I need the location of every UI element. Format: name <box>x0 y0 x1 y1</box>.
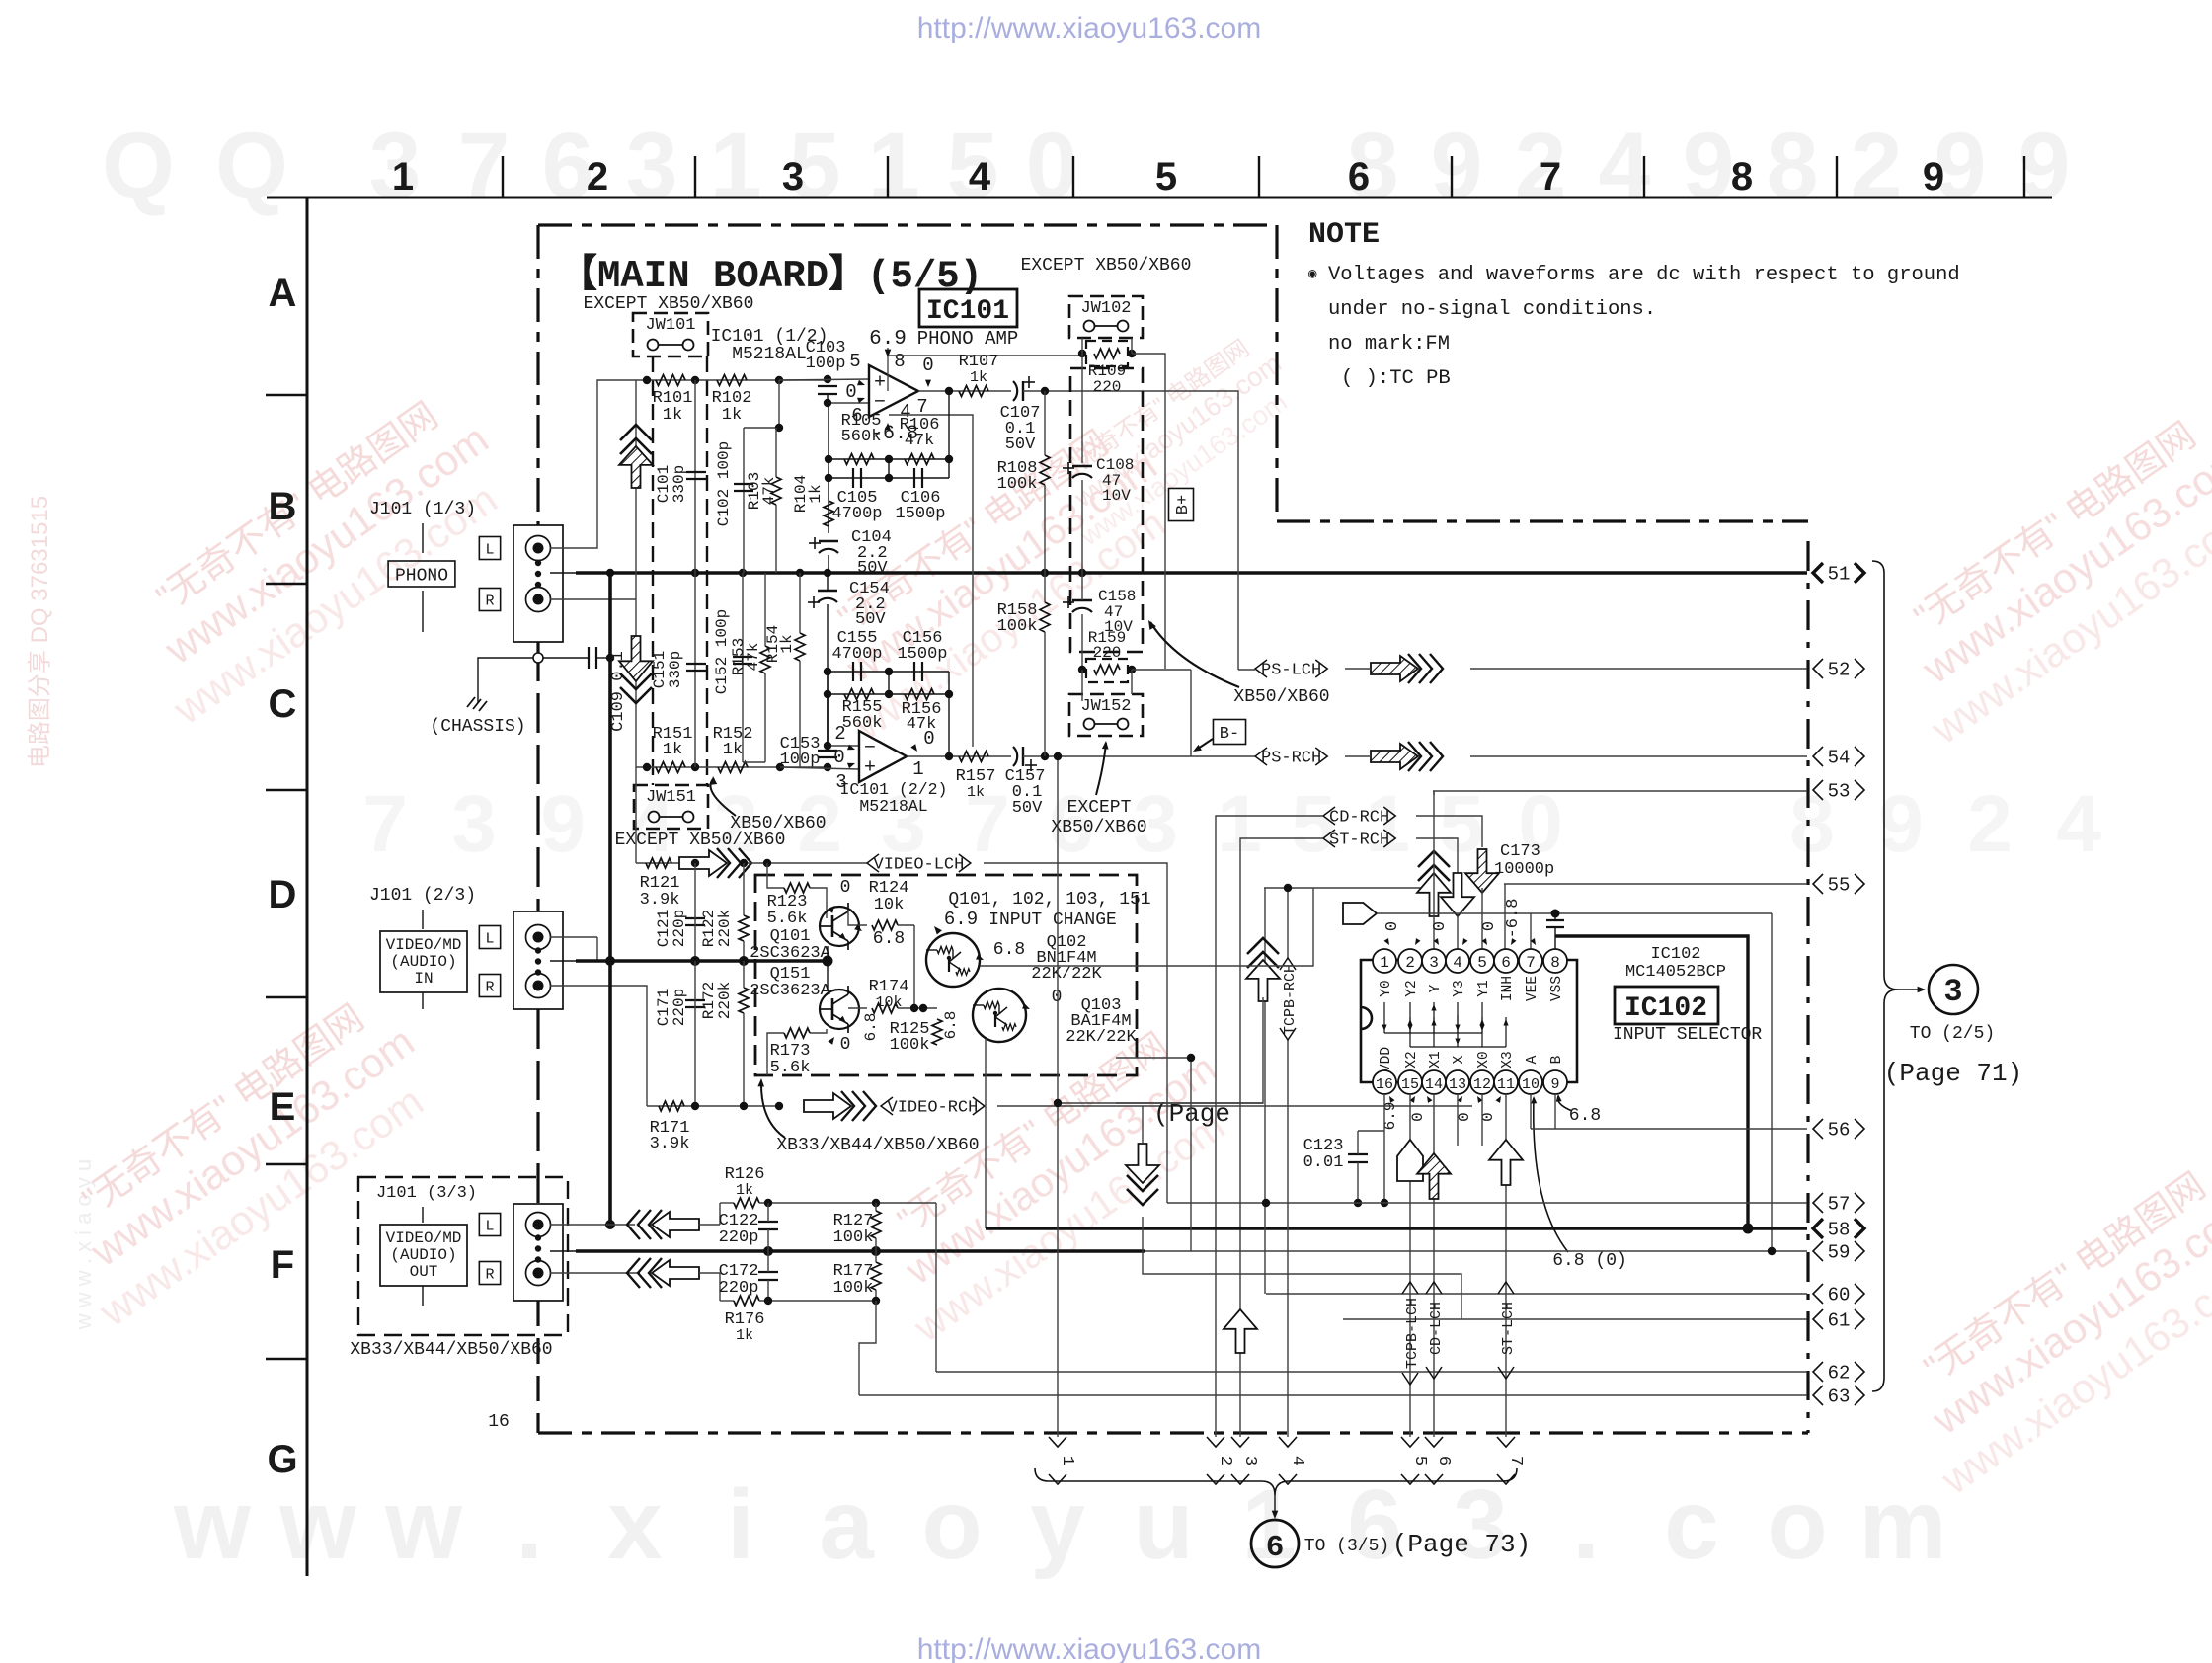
svg-text:2SC3623A: 2SC3623A <box>750 982 830 1000</box>
svg-text:47k: 47k <box>905 432 935 450</box>
svg-text:i: i <box>727 1469 754 1580</box>
wire R173 row <box>810 1029 827 1033</box>
wire minus input 2 <box>828 745 859 747</box>
wire to C107 node <box>1023 391 1238 670</box>
wire R124-R174 link <box>913 925 915 1008</box>
svg-text:X: X <box>1452 1055 1467 1064</box>
hatched arrow down left column <box>619 636 653 681</box>
svg-text:4: 4 <box>969 155 991 198</box>
svg-text:C152 100p: C152 100p <box>713 609 731 694</box>
svg-text:电路图分享 DQ 37631515: 电路图分享 DQ 37631515 <box>27 496 53 768</box>
wire pin5 trunk <box>1481 888 1483 949</box>
svg-text:◉: ◉ <box>1308 267 1317 282</box>
resistor R122v <box>739 915 749 941</box>
wire 63 line <box>859 1394 1807 1396</box>
wire R172 col <box>743 961 745 988</box>
wire R158 col <box>1044 573 1046 602</box>
svg-text:10000p: 10000p <box>1494 860 1554 879</box>
wire input row 777 <box>636 766 828 768</box>
wire R123 to Q101 <box>810 888 827 918</box>
wire input row 385 <box>636 379 828 381</box>
svg-text:14: 14 <box>1425 1076 1443 1093</box>
capacitor C153 <box>818 750 837 752</box>
svg-text:100p: 100p <box>780 751 821 769</box>
svg-text:60: 60 <box>1828 1285 1851 1307</box>
svg-text:100k: 100k <box>997 617 1038 636</box>
thick wire from pin8 L <box>1555 936 1748 1228</box>
hatched arrow down C173 <box>1465 849 1499 893</box>
svg-text:330p: 330p <box>667 651 684 688</box>
wire 900 col <box>888 459 890 478</box>
resistor R171 <box>659 1101 684 1111</box>
svg-text:220p: 220p <box>719 1228 759 1247</box>
wire VIDEO-LCH mid <box>741 862 867 864</box>
svg-text:6: 6 <box>1501 954 1511 972</box>
connector arrow 61 <box>1813 1309 1823 1329</box>
jumper JW101 dashed box <box>633 313 708 356</box>
wire C158 col <box>1081 573 1083 600</box>
wire R122 col <box>743 863 745 915</box>
capacitor C155 <box>852 662 854 681</box>
wire PHONO R down <box>550 598 636 600</box>
svg-text:1k: 1k <box>778 634 796 653</box>
circled 6 off-page <box>1251 1520 1299 1567</box>
svg-text:5.6k: 5.6k <box>767 910 808 928</box>
svg-text:8: 8 <box>1550 954 1560 972</box>
svg-text:6.8 (0): 6.8 (0) <box>1552 1251 1627 1271</box>
svg-text:B+: B+ <box>1174 495 1193 515</box>
transistor Q101 <box>820 907 859 946</box>
jumper JW152 dashed box <box>1069 694 1143 736</box>
svg-text:330p: 330p <box>671 465 688 503</box>
svg-text:4: 4 <box>2056 779 2101 869</box>
svg-text:0.01: 0.01 <box>1303 1153 1344 1172</box>
jumper JW151 dashed box <box>634 785 708 829</box>
resistor R102 <box>717 375 747 386</box>
circled 3 off-page <box>1929 965 1978 1014</box>
wire R out <box>550 1272 640 1274</box>
svg-text:( ):TC PB: ( ):TC PB <box>1341 367 1451 390</box>
svg-text:c: c <box>1664 1469 1719 1580</box>
IC101 big box <box>919 289 1017 327</box>
wire 62 line <box>936 1371 1807 1373</box>
wire VIDEO-LCH row <box>636 862 679 864</box>
wire trunk 1279 arrows <box>1246 960 1280 1001</box>
svg-text:L: L <box>485 930 494 947</box>
svg-text:2: 2 <box>1967 779 2013 869</box>
svg-text:8: 8 <box>1767 114 1819 218</box>
ground chassis symbol <box>467 697 475 707</box>
wire to PS-RCH <box>1023 755 1255 757</box>
svg-text:VIDEO-LCH: VIDEO-LCH <box>874 856 965 875</box>
arrow XB50/XB60 curve <box>1150 622 1239 687</box>
dashed column right <box>706 356 708 785</box>
svg-text:C102 100p: C102 100p <box>715 441 733 526</box>
wire row 772 link <box>743 761 765 763</box>
wire 838 col 2 <box>827 672 829 746</box>
connector arrow 54 <box>1813 747 1823 766</box>
svg-text:1: 1 <box>392 155 414 198</box>
connector arrow 62 <box>1813 1362 1823 1382</box>
svg-text:7: 7 <box>1540 155 1561 198</box>
wire R127 col <box>875 1203 877 1211</box>
wire thick vertical from PHONO line down <box>608 573 612 961</box>
svg-text:7: 7 <box>1526 954 1536 972</box>
svg-text:【MAIN BOARD】(5/5): 【MAIN BOARD】(5/5) <box>559 254 983 298</box>
svg-text:R: R <box>485 593 494 609</box>
svg-text:CD-LCH: CD-LCH <box>1428 1302 1445 1355</box>
wire CD-RCH left <box>1216 816 1323 1437</box>
svg-text:6.8: 6.8 <box>1569 1106 1601 1126</box>
svg-text:5.6k: 5.6k <box>770 1059 811 1077</box>
open arrow VIDEO-LCH <box>679 850 727 876</box>
svg-text:L: L <box>485 541 494 558</box>
arrow B- pointer <box>1195 739 1213 751</box>
svg-text:x: x <box>607 1469 663 1580</box>
wire C171 col <box>694 961 696 1106</box>
wire 55 line left <box>1264 887 1434 889</box>
svg-text:3: 3 <box>451 779 497 869</box>
PHONO boxed label <box>388 561 455 587</box>
svg-text:EXCEPT XB50/XB60: EXCEPT XB50/XB60 <box>1021 256 1192 276</box>
transistor Q102 dtr <box>926 933 980 987</box>
wire feedback row 484 <box>829 477 949 479</box>
capacitor C152 <box>733 656 752 658</box>
capacitor C109 <box>588 647 590 669</box>
svg-text:6.8: 6.8 <box>862 1013 880 1042</box>
svg-text:+: + <box>864 756 876 779</box>
resistor R127v <box>871 1211 881 1238</box>
resistor R156 <box>905 689 934 700</box>
svg-text:50V: 50V <box>1005 436 1036 454</box>
svg-text:ST-LCH: ST-LCH <box>1500 1302 1517 1355</box>
svg-text:4700p: 4700p <box>831 645 882 664</box>
svg-text:220p: 220p <box>671 989 688 1026</box>
svg-text:47k: 47k <box>745 643 762 672</box>
svg-text:1: 1 <box>868 114 920 218</box>
svg-text:53: 53 <box>1828 781 1851 803</box>
svg-text:Q: Q <box>102 114 175 218</box>
svg-text:100k: 100k <box>890 1036 930 1055</box>
net CD-RCH <box>1323 807 1335 825</box>
svg-text:0: 0 <box>1480 921 1499 931</box>
svg-text:INH: INH <box>1500 976 1516 1001</box>
connector down 5 <box>1401 1437 1419 1447</box>
net ST-LCH <box>1498 1282 1514 1294</box>
svg-text:6: 6 <box>1347 1469 1402 1580</box>
svg-text:5: 5 <box>849 351 860 372</box>
wire 55 line right <box>1504 883 1807 885</box>
svg-text:PS-RCH: PS-RCH <box>1261 750 1321 768</box>
svg-text:Voltages and waveforms are dc: Voltages and waveforms are dc with respe… <box>1328 264 1960 286</box>
input change dashed box <box>755 875 1137 1075</box>
svg-text:PHONO AMP: PHONO AMP <box>917 328 1019 350</box>
svg-text:50V: 50V <box>855 610 886 629</box>
svg-text:220: 220 <box>1093 378 1122 396</box>
VIDEO/MD AUDIO IN box <box>380 931 467 992</box>
wire minus node down <box>828 403 829 533</box>
svg-text:−: − <box>874 391 886 414</box>
svg-text:9: 9 <box>1431 114 1483 218</box>
wire 1117 link <box>1058 1102 1263 1104</box>
svg-text:3: 3 <box>1453 1469 1508 1580</box>
resistor R152 <box>718 762 748 773</box>
label R pin 2 <box>479 975 500 997</box>
resistor R106 <box>905 454 934 465</box>
svg-text:100p: 100p <box>806 355 846 373</box>
wire feedback row 703 <box>828 693 949 695</box>
wire feedback row 465 <box>829 458 949 460</box>
connector down 6 <box>1425 1437 1443 1447</box>
wire C151 col <box>694 573 696 767</box>
resistor R108v <box>1040 455 1050 485</box>
wire C152 col <box>742 573 744 762</box>
connector arrow 51 <box>1813 563 1823 583</box>
svg-text:J101 (1/3): J101 (1/3) <box>369 500 476 519</box>
svg-text:7: 7 <box>362 779 408 869</box>
resistor R172v <box>739 988 749 1013</box>
wire trunk 1282 <box>1264 888 1266 1294</box>
svg-text:57: 57 <box>1828 1194 1851 1216</box>
resistor R159 dashed box <box>1086 659 1128 682</box>
svg-text:3: 3 <box>1240 1456 1259 1465</box>
svg-text:C: C <box>269 682 297 726</box>
wire R154 col <box>799 573 801 633</box>
svg-text:1k: 1k <box>723 741 743 759</box>
svg-text:A: A <box>269 272 297 315</box>
svg-text:3: 3 <box>1429 954 1439 972</box>
open arrow up pin11 <box>1489 1140 1523 1185</box>
svg-text:0: 0 <box>1383 921 1402 931</box>
label L pin 3 <box>479 1214 500 1236</box>
svg-text:C173: C173 <box>1500 842 1540 861</box>
transistor Q103 dtr <box>973 989 1026 1042</box>
svg-text:JW152: JW152 <box>1080 697 1131 716</box>
J101 3/3 dashed box <box>358 1177 568 1335</box>
svg-text:0: 0 <box>840 878 851 898</box>
svg-text:u: u <box>1133 1469 1193 1580</box>
svg-text:9: 9 <box>1923 155 1944 198</box>
connector down 1 <box>1049 1437 1066 1447</box>
svg-text:IC101: IC101 <box>926 296 1009 327</box>
wire C108 to thick <box>1081 480 1083 573</box>
svg-text:B: B <box>1549 1055 1565 1064</box>
dashed column left <box>652 356 654 785</box>
svg-text:D: D <box>269 873 297 916</box>
label L pin <box>479 537 500 560</box>
wire Q151 collector to R174 <box>848 1007 867 1009</box>
main board dashed outline top edge <box>538 223 1277 226</box>
svg-text:Q: Q <box>215 114 288 218</box>
svg-text:1k: 1k <box>967 784 985 801</box>
svg-text:8: 8 <box>1731 155 1753 198</box>
svg-text:1k: 1k <box>736 1182 753 1199</box>
resistor R103v <box>771 477 781 505</box>
wire thick PHONO line to 51 <box>576 571 1807 575</box>
main board outline step horizontal <box>1277 519 1808 522</box>
capacitor C122 <box>758 1221 778 1223</box>
capacitor C121 <box>685 917 705 919</box>
tall dashed box exceptXB column <box>1070 368 1143 652</box>
connector arrow 57 <box>1813 1193 1823 1213</box>
svg-text:54: 54 <box>1828 748 1851 769</box>
resistor R107 <box>959 386 988 397</box>
main board left dashed edge bottom <box>536 1301 539 1433</box>
svg-text:220p: 220p <box>719 1279 759 1298</box>
svg-text:http://www.xiaoyu163.com: http://www.xiaoyu163.com <box>917 12 1262 44</box>
svg-text:G: G <box>267 1438 297 1481</box>
capacitor C123 <box>1348 1153 1368 1155</box>
wire R out to C172 <box>699 1272 720 1274</box>
svg-text:VIDEO/MD: VIDEO/MD <box>386 1229 462 1247</box>
resistor R154v <box>795 633 805 661</box>
svg-text:M5218AL: M5218AL <box>859 797 927 816</box>
hatch arrow left L <box>652 1212 699 1237</box>
svg-text:47k: 47k <box>907 715 937 734</box>
svg-text:16: 16 <box>488 1412 510 1432</box>
svg-text:Y3: Y3 <box>1452 980 1467 996</box>
wire PS-RCH right <box>1345 755 1371 757</box>
jog R102 right to C102 col <box>744 380 779 428</box>
svg-text:220p: 220p <box>671 910 688 947</box>
resistor R104v <box>824 501 833 526</box>
svg-text:6: 6 <box>1266 1531 1285 1565</box>
wire C123 col <box>1357 1131 1359 1154</box>
connector arrow 59 <box>1813 1241 1823 1261</box>
svg-text:1k: 1k <box>722 406 742 425</box>
svg-text:16: 16 <box>1376 1076 1393 1093</box>
wire 60 line <box>1266 1293 1807 1295</box>
svg-text:XB33/XB44/XB50/XB60: XB33/XB44/XB50/XB60 <box>350 1340 552 1360</box>
tag pentagon arrow <box>1343 903 1377 924</box>
wire 900 col 2 <box>888 672 890 694</box>
svg-text:10V: 10V <box>1102 487 1131 505</box>
jumper JW102 dashed box <box>1069 296 1143 338</box>
capacitor near pin8 <box>1546 919 1564 921</box>
hatch arrow left R <box>652 1260 699 1286</box>
svg-text:w: w <box>384 1469 462 1580</box>
connector down 4 <box>1279 1437 1297 1447</box>
net TCPB-RCH vertical <box>1287 888 1289 958</box>
svg-text:3: 3 <box>1943 974 1962 1010</box>
main board left dashed edge upper <box>536 225 539 525</box>
svg-text:6.9: 6.9 <box>944 909 978 930</box>
svg-text:1: 1 <box>1217 779 1262 869</box>
svg-text:X3: X3 <box>1500 1051 1516 1068</box>
svg-text:7: 7 <box>1506 1456 1525 1465</box>
svg-text:X0: X0 <box>1476 1051 1492 1068</box>
svg-text:R: R <box>485 1266 494 1283</box>
capacitor C151 <box>686 663 706 665</box>
label R pin <box>479 589 500 611</box>
capacitor C102 <box>734 483 753 485</box>
net TCPB-LCH <box>1402 1282 1418 1294</box>
svg-text:6: 6 <box>1434 1456 1453 1465</box>
wire VIDEO-LCH to trunk <box>984 863 1167 1203</box>
resistor R151 <box>656 762 685 773</box>
capacitor C108 polarized <box>1072 465 1092 467</box>
wire L out <box>550 1224 606 1226</box>
wire pin4 trunk <box>1457 914 1459 949</box>
svg-text:100k: 100k <box>997 475 1038 494</box>
svg-text:5: 5 <box>1410 1456 1429 1465</box>
wire 61 line <box>1343 1318 1807 1320</box>
wire C108 col <box>1081 354 1083 463</box>
svg-text:62: 62 <box>1828 1363 1851 1385</box>
svg-text:under no-signal conditions.: under no-signal conditions. <box>1328 298 1656 321</box>
wire plus input 2 <box>780 767 859 769</box>
brace right side <box>1872 561 1898 1391</box>
svg-text:XB50/XB60: XB50/XB60 <box>1233 687 1329 707</box>
svg-text:X2: X2 <box>1404 1051 1420 1068</box>
wire pin15 down <box>1409 1094 1411 1437</box>
resistor R174 <box>872 1003 898 1013</box>
label B+ boxed <box>1169 488 1194 520</box>
open arrow up bottom 3 <box>1224 1309 1257 1353</box>
svg-text:.: . <box>515 1469 543 1580</box>
svg-text:10k: 10k <box>874 896 905 914</box>
svg-text:9: 9 <box>1683 114 1735 218</box>
svg-text:EXCEPT XB50/XB60: EXCEPT XB50/XB60 <box>584 294 754 314</box>
svg-text:XB50/XB60: XB50/XB60 <box>1051 818 1146 837</box>
resistor R155 <box>844 689 874 700</box>
wire minus input <box>827 394 829 403</box>
svg-text:(Page 73): (Page 73) <box>1392 1530 1531 1559</box>
wire Q101 collector to R124 <box>848 910 867 925</box>
main board outline step vertical <box>1275 225 1278 521</box>
wire R121 left up <box>635 767 637 863</box>
IC102 big box <box>1615 987 1718 1024</box>
label L pin 2 <box>479 926 500 949</box>
capacitor C156 <box>913 662 915 681</box>
wire R174 right <box>898 1007 937 1009</box>
wire VIDEO-RCH row <box>647 1105 779 1107</box>
wire 58 thick line <box>986 1227 1807 1230</box>
svg-text:0: 0 <box>833 747 844 768</box>
wire op-amp1 out <box>918 390 1011 392</box>
wire pin16 jog <box>1358 1130 1384 1132</box>
svg-text:13: 13 <box>1449 1076 1466 1093</box>
svg-text:6.9: 6.9 <box>869 328 907 351</box>
svg-text:JW102: JW102 <box>1080 299 1131 318</box>
svg-text:10: 10 <box>1522 1076 1540 1093</box>
svg-text:9: 9 <box>1878 779 1924 869</box>
IC102 pins <box>1373 949 1396 973</box>
svg-text:(Page 71): (Page 71) <box>1884 1059 2022 1088</box>
main board left dashed edge mid <box>536 642 539 911</box>
svg-text:6: 6 <box>1348 155 1370 198</box>
svg-text:56: 56 <box>1828 1120 1851 1142</box>
svg-text:3.9k: 3.9k <box>650 1135 690 1153</box>
svg-text:100k: 100k <box>833 1279 874 1298</box>
wire R123 row <box>767 863 784 888</box>
svg-text:6.8: 6.8 <box>993 940 1025 960</box>
wire Q151 base <box>827 961 829 990</box>
border ruler left line <box>306 198 309 1576</box>
wire pin12 down <box>1481 1094 1483 1146</box>
svg-text:Y2: Y2 <box>1404 980 1420 996</box>
wire audio out thick <box>550 1250 576 1252</box>
svg-text:22K/22K: 22K/22K <box>1066 1028 1137 1047</box>
wire PS-LCH <box>1238 669 1255 671</box>
capacitor C157 series <box>1013 747 1017 766</box>
connector arrow 56 <box>1813 1119 1823 1139</box>
arrow XB50/XB60 to R152 <box>710 778 736 816</box>
wire pin6 trunk <box>1504 884 1506 949</box>
resistor R123 <box>784 883 810 893</box>
resistor R176 <box>734 1296 759 1306</box>
svg-text:63: 63 <box>1828 1386 1851 1408</box>
